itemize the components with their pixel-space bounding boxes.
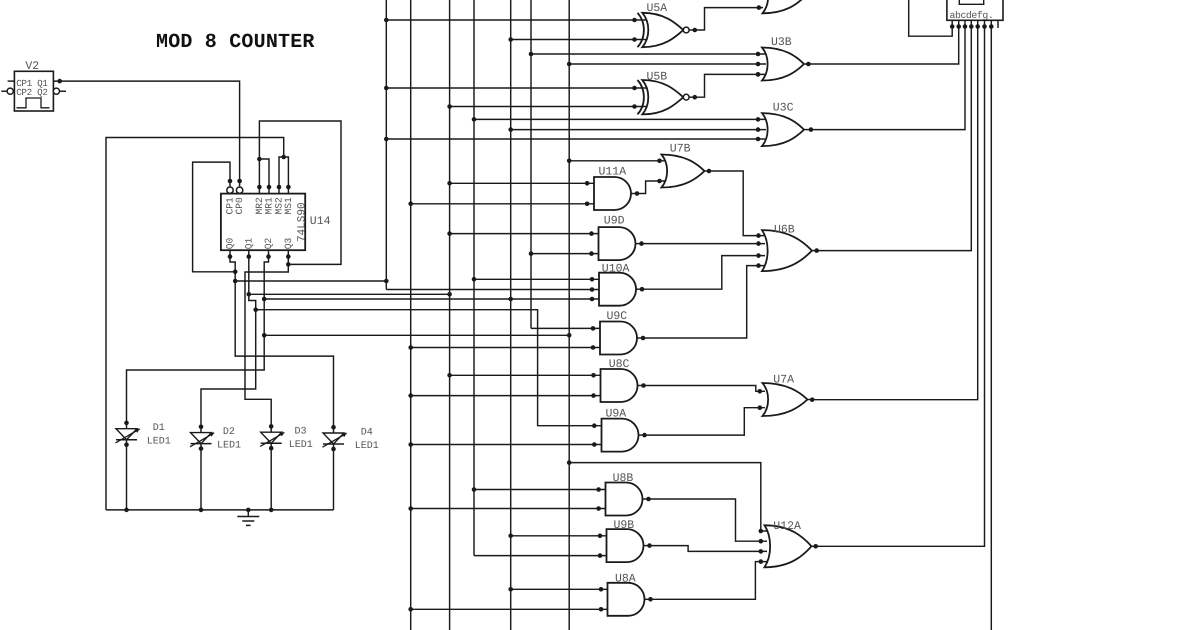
svg-text:U9C: U9C — [607, 310, 628, 323]
wire to U5A input A — [386, 18, 650, 23]
title MOD 8 COUNTER — [156, 31, 315, 54]
wire U14.Q0 to U14.CP1 — [193, 162, 238, 274]
and gate U9D — [599, 227, 645, 260]
wire U3B output to display pin b — [812, 27, 959, 65]
wire U14.Q3 column to D3 — [245, 264, 288, 426]
label U9A — [606, 408, 627, 421]
wire U9B output to U12A input C — [652, 546, 767, 554]
wire to U8A input A — [511, 587, 608, 592]
LED D3 — [260, 424, 284, 510]
svg-text:MS1: MS1 — [283, 197, 294, 215]
label U8A — [615, 573, 636, 586]
svg-text:Q1: Q1 — [243, 238, 254, 250]
wire to U11A input A — [450, 181, 594, 186]
wire to U3B input A — [531, 52, 765, 57]
wire to U9B input A — [511, 534, 607, 539]
svg-text:D3: D3 — [295, 427, 307, 438]
LED D2 — [190, 425, 214, 510]
wire bus Q2 (x511) — [508, 0, 513, 630]
U14 pin label Q3 — [283, 238, 294, 250]
svg-text:U5B: U5B — [647, 71, 668, 84]
and gate U8C — [601, 369, 648, 402]
label U3C — [773, 102, 794, 115]
wire to U3C input C — [386, 137, 765, 142]
wire to U5B input A — [386, 86, 650, 91]
wire to U9A input B — [411, 442, 602, 447]
svg-text:CP0: CP0 — [234, 197, 245, 215]
label D1 LED1 — [147, 437, 171, 448]
svg-text:U5A: U5A — [647, 2, 668, 15]
wire U14.Q1 column to D2 — [201, 250, 258, 427]
wire bus x531 to U9C input A — [531, 326, 600, 331]
svg-text:U9B: U9B — [614, 519, 635, 532]
label D4 — [361, 427, 373, 438]
wire U8B output to U12A input B — [651, 499, 767, 544]
svg-text:U8C: U8C — [609, 358, 630, 371]
U14 pin label MS2 — [274, 197, 285, 215]
wire bus x531 — [529, 0, 534, 328]
label D3 LED1 — [289, 440, 313, 451]
U14 reference U14 — [310, 215, 331, 228]
wire Q2 branch to bus node — [264, 333, 571, 338]
svg-text:U11A: U11A — [599, 166, 627, 179]
and gate U9C — [600, 322, 646, 355]
wire bus x474 — [472, 0, 477, 556]
wire U10A output to U6B input C — [645, 253, 765, 289]
svg-text:U8A: U8A — [615, 573, 636, 586]
wire Q2 line to U10A input C — [264, 297, 599, 302]
svg-text:D4: D4 — [361, 427, 373, 438]
wire U3C output to display pin c — [814, 27, 965, 130]
label U9B — [614, 519, 635, 532]
svg-text:U10A: U10A — [602, 263, 630, 276]
label D1 — [153, 423, 165, 434]
wire to U9C input B — [411, 345, 600, 350]
label D2 LED1 — [217, 441, 241, 452]
and gate U10A — [599, 273, 645, 306]
wire display pin g — [990, 27, 992, 630]
svg-text:U9D: U9D — [604, 215, 625, 228]
svg-text:U3B: U3B — [771, 36, 792, 49]
wire to U5A input B — [511, 37, 650, 42]
or gate U3A (partial) — [763, 0, 805, 13]
7-segment display U13 — [947, 0, 1003, 21]
svg-text:Q0: Q0 — [225, 238, 236, 250]
U14 pin label Q0 — [225, 238, 236, 250]
and gate U9A — [602, 419, 649, 452]
svg-text:U6B: U6B — [774, 224, 795, 237]
label U10A — [602, 263, 630, 276]
wire bus Q0 (x386) — [384, 0, 389, 290]
label U11A — [599, 166, 627, 179]
and gate U11A — [594, 177, 640, 210]
wire Q1 branch to bus — [249, 292, 452, 297]
wire U8A output to U12A input D — [653, 559, 767, 599]
label U7A — [773, 374, 794, 387]
U14 pin label MR2 — [254, 197, 265, 215]
wire to U8C input B — [411, 393, 601, 398]
wire to U10A input A — [474, 277, 599, 282]
svg-text:U7B: U7B — [670, 143, 691, 156]
wire display pin a — [909, 0, 953, 36]
wire U12A output to display pin f — [819, 27, 985, 547]
wire to U11A input B — [411, 202, 594, 207]
svg-text:74LS90: 74LS90 — [297, 202, 309, 242]
wire U9A output to U7A input B — [648, 405, 765, 435]
svg-text:LED1: LED1 — [355, 441, 379, 452]
wire U9C output to U6B input D — [646, 263, 765, 338]
label U5B — [647, 71, 668, 84]
U14 pin label CP0 — [234, 197, 245, 215]
wire V2.Q1 to U14.CP0 — [53, 79, 242, 187]
wire U9D output to U6B input B — [644, 241, 765, 246]
wire U7A output to display pin e — [815, 27, 978, 400]
svg-text:U3C: U3C — [773, 102, 794, 115]
wire to U7B input A — [569, 159, 665, 164]
wire Q0 branch to bus Q0 — [235, 279, 388, 284]
wire bus x569 — [567, 0, 572, 630]
or gate U3B — [756, 48, 812, 81]
svg-text:U14: U14 — [310, 215, 331, 228]
svg-text:U7A: U7A — [773, 374, 794, 387]
xnor gate U5B — [638, 80, 698, 114]
label U5A — [647, 2, 668, 15]
svg-text:LED1: LED1 — [289, 440, 313, 451]
wire to U5B input B — [450, 104, 650, 109]
and gate U8A — [608, 583, 654, 616]
wire to U9D input B — [531, 251, 599, 256]
svg-text:V2: V2 — [25, 60, 39, 73]
wire to U8A input B — [411, 607, 608, 612]
label U9D — [604, 215, 625, 228]
label D4 LED1 — [355, 441, 379, 452]
svg-text:U9A: U9A — [606, 408, 627, 421]
svg-text:Q2: Q2 — [263, 238, 274, 250]
wire U5A output to U3A — [698, 5, 764, 30]
wire U14.Q3 to U14.MR2 — [257, 121, 341, 267]
ground — [237, 510, 259, 526]
wire to U8B input A — [474, 487, 606, 492]
or gate U7B — [662, 155, 713, 188]
and gate U9B — [607, 529, 653, 562]
U14 pin label Q1 — [243, 238, 254, 250]
wire U14.Q2 column to D1 — [127, 250, 271, 423]
pulse source V2 — [1, 60, 66, 111]
xnor gate U5A — [638, 13, 698, 47]
LED D1 — [116, 421, 140, 510]
wire to U8C input A — [450, 373, 601, 378]
svg-text:D1: D1 — [153, 423, 165, 434]
wire to U3C input A — [474, 117, 765, 122]
wire bus x411 — [408, 0, 413, 630]
wire bus Q1 (x450) — [447, 0, 452, 630]
or gate U6B — [762, 230, 820, 271]
wire to U3B input B — [569, 62, 766, 67]
label U7B — [670, 143, 691, 156]
wire bus x474 to U9B input B — [474, 553, 607, 558]
wire Q1 jog to U9A input A — [256, 310, 602, 428]
wire U8C output to U7A input A — [647, 386, 765, 394]
U14 part number 74LS90 — [297, 202, 309, 242]
wire U7B output to U6B input A — [712, 171, 765, 238]
label D3 — [295, 427, 307, 438]
LED D4 — [323, 425, 347, 510]
label U9C — [607, 310, 628, 323]
svg-text:U12A: U12A — [773, 520, 801, 533]
wire U6B output to display pin d — [820, 27, 971, 251]
wire U14.MS1 MS2 to ground rail — [106, 138, 291, 510]
label U3B — [771, 36, 792, 49]
or gate U12A — [765, 525, 820, 567]
svg-text:LED1: LED1 — [217, 441, 241, 452]
U14 pin label CP1 — [225, 197, 236, 215]
wire ground rail — [106, 508, 334, 513]
label U8C — [609, 358, 630, 371]
svg-text:CP2 Q2: CP2 Q2 — [16, 87, 47, 98]
svg-text:LED1: LED1 — [147, 437, 171, 448]
svg-text:D2: D2 — [223, 427, 235, 438]
label U8B — [613, 472, 634, 485]
wire U14.Q0 column to D4 — [228, 250, 334, 427]
wire U5B output to U3B input C — [698, 72, 767, 97]
label U6B — [774, 224, 795, 237]
U14 pin label MS1 — [283, 197, 294, 215]
svg-text:U8B: U8B — [613, 472, 634, 485]
and gate U8B — [606, 483, 652, 516]
U14 pin label MR1 — [264, 197, 275, 215]
wire to U3C input B — [511, 127, 766, 132]
svg-text:Q3: Q3 — [283, 238, 294, 250]
display pins a-g and dp — [950, 20, 998, 29]
U14 pin label Q2 — [263, 238, 274, 250]
wire bus x569 to U12A input A — [569, 463, 767, 534]
label U12A — [773, 520, 801, 533]
wire bus Q0 to U10A input B — [386, 287, 599, 292]
wire to U8B input B — [411, 506, 606, 511]
wire U14.MR1 tie — [257, 157, 271, 194]
wire U11A output to U7B input B — [640, 179, 665, 194]
svg-text:MOD 8 COUNTER: MOD 8 COUNTER — [156, 31, 315, 54]
or gate U7A — [763, 383, 816, 416]
wire to U9D input A — [450, 231, 599, 236]
IC U14 74LS90 body — [221, 187, 305, 250]
svg-text:abcdefg.: abcdefg. — [950, 10, 994, 21]
label D2 — [223, 427, 235, 438]
or gate U3C — [762, 113, 814, 146]
